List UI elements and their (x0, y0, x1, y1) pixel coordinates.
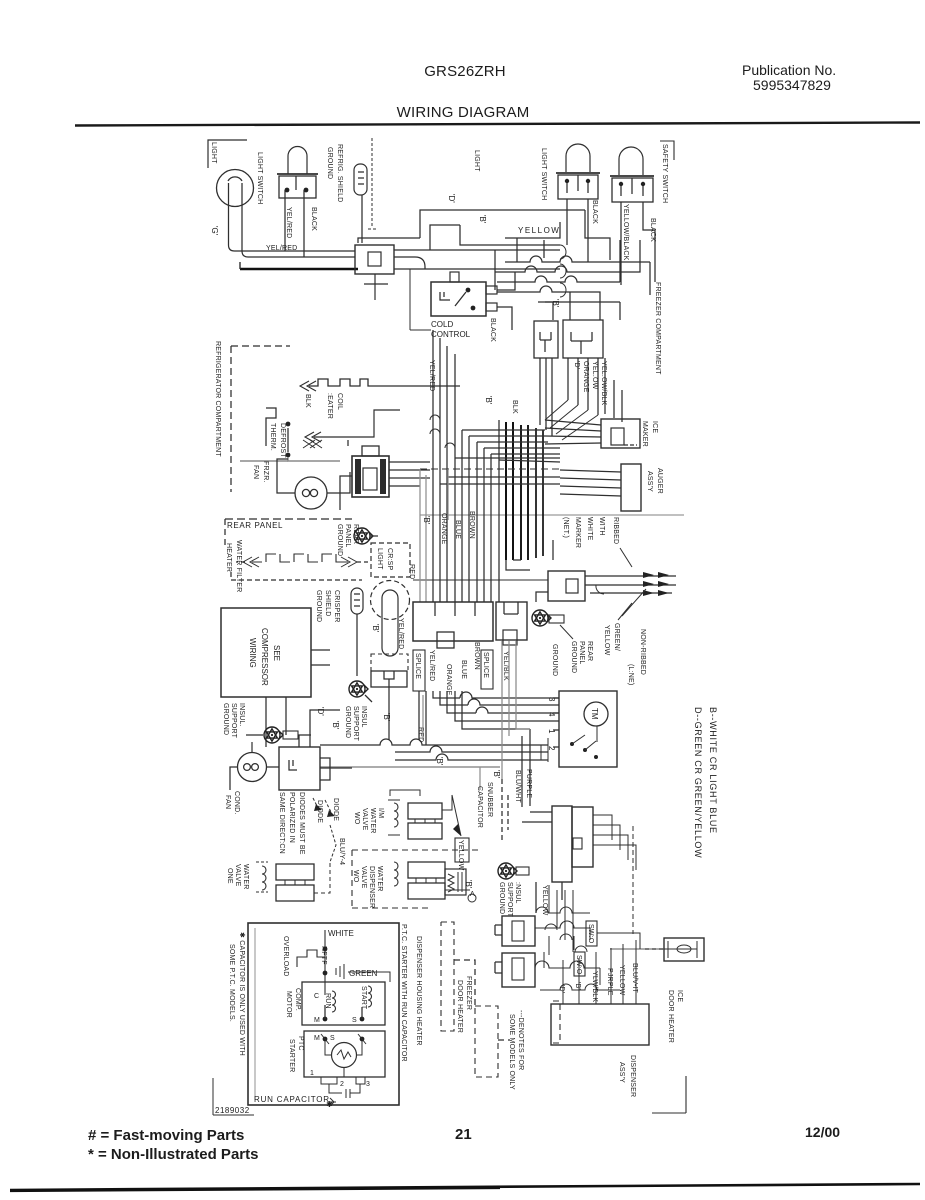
svg-text:BLACK: BLACK (649, 218, 656, 242)
svg-text:COIL: COIL (336, 393, 343, 410)
svg-text:WATER: WATER (369, 808, 376, 834)
svg-text:WO: WO (352, 870, 359, 883)
svg-text:M: M (314, 1017, 320, 1024)
svg-text:DIODE: DIODE (316, 800, 323, 823)
svg-text:WO: WO (353, 812, 360, 825)
svg-text:GROUND: GROUND (570, 641, 577, 673)
svg-text:VALVE: VALVE (361, 808, 368, 831)
svg-text:BLK: BLK (304, 394, 311, 408)
svg-text:LIGHT SWITCH: LIGHT SWITCH (256, 152, 263, 204)
svg-text:WATER: WATER (242, 864, 249, 890)
svg-text:COMPRESSOR: COMPRESSOR (260, 628, 269, 686)
svg-text:DEFROST: DEFROST (279, 423, 286, 458)
svg-text:BLACK: BLACK (591, 200, 598, 224)
svg-text:YLW/BLK: YLW/BLK (591, 971, 598, 1002)
svg-text:SPLICE: SPLICE (414, 653, 421, 679)
svg-text:ORANGE: ORANGE (445, 664, 452, 696)
svg-text:5995347829: 5995347829 (753, 77, 831, 93)
svg-text:S: S (352, 1017, 357, 1024)
svg-text:INSUL.: INSUL. (238, 703, 245, 727)
svg-text:GREEN/: GREEN/ (613, 623, 620, 651)
svg-text:'B': 'B' (492, 770, 501, 779)
svg-text:'B': 'B' (435, 757, 444, 766)
svg-text:AUGER: AUGER (656, 468, 663, 494)
svg-text:YELLOW/BLACK: YELLOW/BLACK (622, 204, 629, 261)
svg-text:PANEL: PANEL (578, 641, 585, 664)
svg-text:2: 2 (340, 1081, 344, 1088)
svg-text:ONE: ONE (226, 868, 233, 884)
svg-text:ASS'Y: ASS'Y (618, 1062, 625, 1083)
svg-text:GROUND: GROUND (498, 882, 505, 914)
svg-text:SOME MODELS ONLY: SOME MODELS ONLY (508, 1014, 515, 1090)
svg-text:PTC: PTC (297, 1036, 304, 1051)
svg-text:MOTOR: MOTOR (285, 991, 292, 1018)
svg-text:'B': 'B' (484, 396, 493, 405)
svg-text:CONTROL: CONTROL (431, 330, 471, 339)
svg-text:YELLOW: YELLOW (618, 965, 625, 996)
svg-text:CR:SP: CR:SP (386, 548, 393, 571)
svg-text::NSUL: :NSUL (514, 882, 521, 904)
svg-text:BLUE: BLUE (454, 520, 461, 539)
svg-text:THERM.: THERM. (269, 423, 276, 451)
svg-text:ASS'Y: ASS'Y (646, 471, 653, 492)
svg-text:FREEZER COMPARTMENT: FREEZER COMPARTMENT (654, 282, 661, 375)
svg-text:'B': 'B' (331, 721, 340, 730)
svg-text:GROUND: GROUND (344, 706, 351, 738)
svg-text:SOME P.T.C. MODELS.: SOME P.T.C. MODELS. (228, 944, 235, 1022)
svg-text:'D': 'D' (558, 985, 565, 993)
svg-text:PURPLE: PURPLE (525, 769, 532, 798)
svg-text:DIODES MUST BE: DIODES MUST BE (298, 792, 305, 855)
svg-text:BLU/Y-4: BLU/Y-4 (338, 838, 345, 865)
svg-text:YEL/BLK: YEL/BLK (502, 651, 509, 681)
svg-text:WIRING: WIRING (248, 638, 257, 668)
svg-text:YELLOW: YELLOW (541, 885, 548, 916)
svg-text:DISPENSER: DISPENSER (629, 1055, 636, 1097)
svg-text:2189032: 2189032 (215, 1106, 250, 1115)
svg-text:CAPACITOR: CAPACITOR (476, 786, 483, 828)
svg-text:INSUL: INSUL (360, 706, 367, 728)
svg-text:Publication No.: Publication No. (742, 62, 836, 78)
svg-text:'G': 'G' (210, 226, 219, 236)
svg-text:MAKER: MAKER (641, 421, 648, 447)
svg-text:WATER FILTER: WATER FILTER (235, 540, 242, 592)
svg-text:SW:O: SW:O (587, 924, 594, 944)
svg-text:FRZR.: FRZR. (262, 461, 269, 483)
svg-text:'B': 'B' (478, 215, 487, 224)
svg-text:YELLOW: YELLOW (603, 625, 610, 656)
svg-text:CRISPER: CRISPER (333, 590, 340, 623)
svg-text:(L:NE): (L:NE) (627, 664, 634, 685)
svg-text:* = Non-Illustrated Parts: * = Non-Illustrated Parts (88, 1146, 258, 1163)
svg-text:ICE: ICE (676, 990, 683, 1002)
svg-text:LIGHT SWITCH: LIGHT SWITCH (540, 148, 547, 200)
svg-text:'B': 'B' (422, 516, 431, 525)
svg-text:BLACK: BLACK (310, 207, 317, 231)
svg-text:SAFETY SWITCH: SAFETY SWITCH (661, 144, 668, 203)
svg-text:BROWN: BROWN (473, 642, 480, 670)
svg-text:'D': 'D' (573, 361, 580, 369)
svg-text:S: S (330, 1035, 335, 1042)
svg-text:COMP.: COMP. (294, 988, 301, 1011)
svg-text:WIRING DIAGRAM: WIRING DIAGRAM (397, 104, 530, 121)
svg-text:✱ CAPACITOR IS ONLY USED WITH: ✱ CAPACITOR IS ONLY USED WITH (238, 932, 246, 1056)
svg-text:DISPENSER: DISPENSER (368, 866, 375, 908)
svg-text:'B': 'B' (371, 624, 380, 633)
svg-text:FREEZER: FREEZER (465, 976, 472, 1010)
svg-text:SUPPORT: SUPPORT (352, 706, 359, 742)
svg-text:A: A (470, 891, 475, 898)
svg-text:POLARIZED IN: POLARIZED IN (288, 792, 295, 843)
svg-text:SAME DIRECT:CN: SAME DIRECT:CN (278, 792, 285, 854)
svg-text:# = Fast-moving Parts: # = Fast-moving Parts (88, 1127, 244, 1144)
svg-text:YELLOW: YELLOW (457, 840, 464, 871)
svg-text:YEL.OW/BLK: YEL.OW/BLK (600, 361, 607, 406)
svg-text:BLU/WHT: BLU/WHT (514, 770, 521, 803)
svg-text:YEL.OW: YEL.OW (591, 361, 598, 390)
svg-text:YEL/RED: YEL/RED (428, 360, 435, 391)
svg-text:MARKER: MARKER (574, 517, 581, 548)
svg-text:DOOR HEATER: DOOR HEATER (456, 980, 463, 1033)
svg-text:DIODE: DIODE (332, 798, 339, 821)
svg-text:PANEL: PANEL (344, 524, 351, 547)
svg-text:B--WHITE CR LIGHT BLUE: B--WHITE CR LIGHT BLUE (708, 707, 718, 834)
svg-text:REAR PANEL: REAR PANEL (227, 521, 283, 530)
svg-text:FAN: FAN (252, 465, 259, 479)
svg-text:I/M: I/M (377, 808, 384, 818)
svg-text:21: 21 (455, 1126, 472, 1143)
svg-text:YEL/RED: YEL/RED (428, 650, 435, 681)
svg-text:COLD: COLD (431, 320, 453, 329)
svg-text:GROUND: GROUND (326, 147, 333, 179)
svg-text:RED: RED (408, 564, 415, 579)
svg-text:---DENOTES FOR: ---DENOTES FOR (517, 1010, 524, 1070)
svg-text:YEL/RED: YEL/RED (397, 618, 404, 649)
svg-text:SHIELD: SHIELD (324, 590, 331, 617)
svg-text:START: START (360, 986, 367, 1010)
svg-text:ICE: ICE (651, 421, 658, 433)
svg-text:REFRIGERATOR COMPARTMENT: REFRIGERATOR COMPARTMENT (214, 341, 221, 457)
svg-text:WITH: WITH (598, 517, 605, 536)
svg-text:DISPENSER HOUSING HEATER: DISPENSER HOUSING HEATER (415, 936, 422, 1046)
svg-text:VALVE: VALVE (234, 864, 241, 887)
svg-text:3: 3 (366, 1081, 370, 1088)
svg-text:BLUE: BLUE (460, 660, 467, 679)
svg-text:P.T.C. STARTER WITH RUN CAPACI: P.T.C. STARTER WITH RUN CAPACITOR (400, 924, 407, 1062)
svg-text:BLU/V-IT: BLU/V-IT (631, 963, 638, 994)
svg-text:NON-RIBBED: NON-RIBBED (639, 629, 646, 675)
svg-text:RIBBED: RIBBED (612, 517, 619, 544)
svg-text:'D': 'D' (316, 707, 325, 716)
svg-text:GROUND: GROUND (551, 644, 558, 676)
svg-text:SNUBBER: SNUBBER (486, 782, 493, 817)
svg-text:ORANGE: ORANGE (440, 513, 447, 545)
svg-text:'B': 'B' (551, 299, 560, 308)
svg-text:GROUND: GROUND (222, 703, 229, 735)
svg-text:GROUND: GROUND (336, 524, 343, 556)
svg-text:BLK: BLK (511, 400, 518, 414)
svg-text:DOOR HEATER: DOOR HEATER (667, 990, 674, 1043)
svg-text:REFRIG. SHIELD: REFRIG. SHIELD (336, 144, 343, 202)
svg-text:1: 1 (310, 1070, 314, 1077)
svg-text:VALVE: VALVE (360, 866, 367, 889)
svg-text:SUPPORT: SUPPORT (230, 703, 237, 739)
svg-text:BROWN: BROWN (468, 511, 475, 539)
svg-text:GRS26ZRH: GRS26ZRH (424, 63, 506, 80)
svg-text:C: C (314, 993, 319, 1000)
svg-text:(NET.): (NET.) (562, 517, 569, 538)
svg-text:D--GREEN CR GREEN/YELLOW: D--GREEN CR GREEN/YELLOW (693, 707, 703, 858)
svg-text:SUPPORT: SUPPORT (506, 882, 513, 918)
svg-text:YEL/RED: YEL/RED (285, 207, 292, 238)
svg-text::EATER: :EATER (326, 393, 333, 419)
svg-text:LIGHT: LIGHT (376, 548, 383, 570)
svg-text:M: M (314, 1035, 320, 1042)
svg-text:YELLOW: YELLOW (518, 226, 560, 235)
svg-text:12/00: 12/00 (805, 1124, 840, 1140)
svg-text:FAN: FAN (224, 795, 231, 809)
svg-text:REAR: REAR (586, 641, 593, 661)
svg-text:LIGHT: LIGHT (210, 142, 217, 164)
svg-text:COND.: COND. (233, 791, 240, 815)
svg-text:SPLICE: SPLICE (482, 652, 489, 678)
svg-text:SEE: SEE (272, 645, 281, 661)
svg-text:STARTER: STARTER (288, 1039, 295, 1072)
svg-text:'D': 'D' (447, 194, 456, 203)
svg-text:OVERLOAD: OVERLOAD (282, 936, 289, 977)
svg-text:PJRPLE: PJRPLE (606, 968, 613, 996)
svg-text:RUN CAPACITOR: RUN CAPACITOR (254, 1095, 330, 1104)
svg-text:YEL/RED: YEL/RED (266, 245, 297, 252)
svg-text:LIGHT: LIGHT (473, 150, 480, 172)
svg-text:HEATER: HEATER (225, 543, 232, 572)
svg-text:WHITE: WHITE (328, 929, 354, 938)
svg-text:GREEN: GREEN (349, 969, 378, 978)
svg-text:'B': 'B' (464, 880, 473, 889)
svg-text:WATER: WATER (376, 866, 383, 892)
svg-text:GROUND: GROUND (315, 590, 322, 622)
svg-text:'B': 'B' (382, 713, 391, 722)
svg-text:TM: TM (590, 708, 599, 720)
svg-text:WHITE: WHITE (586, 517, 593, 541)
svg-text:'B': 'B' (574, 982, 581, 990)
svg-text:BLACK: BLACK (489, 318, 496, 342)
